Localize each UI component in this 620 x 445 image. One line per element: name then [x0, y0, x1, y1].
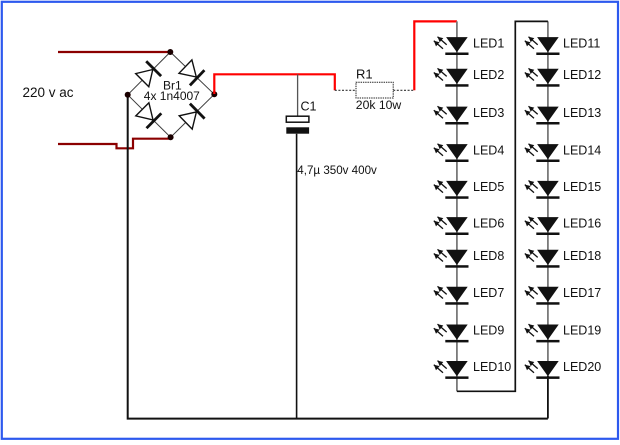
- svg-text:4,7µ 350v 400v: 4,7µ 350v 400v: [297, 164, 377, 177]
- svg-text:20k 10w: 20k 10w: [356, 98, 402, 112]
- svg-text:LED2: LED2: [473, 68, 504, 82]
- svg-text:220 v ac: 220 v ac: [23, 85, 74, 100]
- svg-text:LED14: LED14: [563, 143, 601, 157]
- svg-text:LED13: LED13: [563, 106, 601, 120]
- svg-text:LED19: LED19: [563, 324, 601, 338]
- svg-text:LED9: LED9: [473, 324, 504, 338]
- svg-text:LED15: LED15: [563, 180, 601, 194]
- svg-text:LED17: LED17: [563, 286, 601, 300]
- svg-text:LED5: LED5: [473, 180, 504, 194]
- svg-text:LED3: LED3: [473, 106, 504, 120]
- svg-text:C1: C1: [301, 99, 317, 113]
- svg-text:LED12: LED12: [563, 68, 601, 82]
- svg-text:LED18: LED18: [563, 249, 601, 263]
- svg-text:LED7: LED7: [473, 286, 504, 300]
- svg-text:LED6: LED6: [473, 216, 504, 230]
- svg-text:R1: R1: [356, 67, 373, 82]
- svg-text:LED8: LED8: [473, 249, 504, 263]
- svg-text:LED10: LED10: [473, 360, 511, 374]
- svg-text:LED4: LED4: [473, 143, 504, 157]
- svg-text:4x 1n4007: 4x 1n4007: [144, 89, 200, 103]
- svg-text:LED1: LED1: [473, 36, 504, 50]
- svg-text:LED11: LED11: [563, 36, 600, 50]
- svg-text:LED16: LED16: [563, 216, 601, 230]
- svg-text:LED20: LED20: [563, 360, 601, 374]
